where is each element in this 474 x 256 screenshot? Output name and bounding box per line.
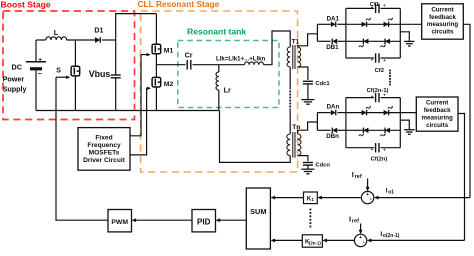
wire Tn secondary bottom to Cdcn — [298, 156, 308, 162]
svg-text:circuits: circuits — [426, 122, 449, 129]
capacitor Cdc1 — [303, 80, 313, 82]
svg-text:DB1: DB1 — [326, 44, 339, 51]
wire Io1 into summing 1 — [378, 197, 471, 199]
svg-text:I: I — [349, 214, 351, 223]
node split vertical for DAn/DBn — [316, 113, 318, 131]
wire feedback 1 down to Io1 summing — [463, 24, 470, 197]
wire K1 to SUM — [274, 197, 304, 199]
wire M2 source to bottom rail — [155, 87, 157, 111]
dots between gain blocks — [310, 209, 312, 211]
capacitor Cdcn — [303, 162, 313, 164]
svg-text:Llk=Llk1+...+Llkn: Llk=Llk1+...+Llkn — [216, 55, 266, 62]
svg-text:-: - — [370, 197, 372, 203]
svg-text:Cdc1: Cdc1 — [315, 81, 330, 87]
svg-text:ref: ref — [355, 174, 362, 180]
wire midpoint tap to tank — [156, 64, 185, 66]
svg-text:M2: M2 — [164, 81, 174, 88]
wire Tn secondary top to rectifier node — [298, 122, 318, 134]
wire to Tn primary — [289, 109, 291, 135]
wire PID to PWM — [135, 219, 192, 221]
wire T1 primary series link — [289, 67, 291, 90]
wire top boost rail — [36, 39, 46, 41]
svg-text:Power: Power — [3, 74, 25, 83]
wire T1 secondary top to rectifier node — [298, 34, 318, 47]
svg-text:+: + — [383, 92, 386, 97]
svg-text:+: + — [383, 58, 386, 63]
svg-text:I: I — [352, 170, 354, 179]
svg-text:CLL Resonant Stage: CLL Resonant Stage — [138, 0, 220, 9]
svg-text:1: 1 — [311, 197, 314, 202]
gate wire of M2 to driver — [146, 87, 149, 89]
ground — [400, 32, 409, 42]
inductor Llk — [245, 62, 264, 65]
wire boost output to half-bridge top rail — [116, 14, 157, 40]
inductor Lr — [218, 65, 220, 72]
capacitor Cf(2n) — [375, 143, 377, 152]
wire feedback 2 down to Io(2n-1) summing — [458, 114, 465, 241]
switch S (boost MOSFET) — [74, 40, 76, 66]
svg-text:+: + — [366, 192, 369, 198]
transistor M1 — [152, 44, 161, 54]
wire PWM to boost switch gate — [56, 77, 108, 220]
svg-text:Supply: Supply — [3, 84, 27, 93]
summing junction 2 — [354, 234, 366, 246]
svg-text:+: + — [359, 235, 362, 241]
summing junction 1 — [361, 191, 373, 203]
arrow Iref into summing 1 — [367, 179, 369, 189]
svg-text:measuring: measuring — [427, 21, 459, 28]
svg-text:Resonant tank: Resonant tank — [187, 27, 246, 37]
ground below Cdcn — [307, 165, 309, 169]
arrow Iref into summing 2 — [360, 224, 362, 231]
block PWM — [108, 210, 132, 232]
svg-text:o1: o1 — [388, 190, 394, 196]
wire summing 2 to K(2n-1) — [326, 239, 355, 241]
ground — [400, 120, 409, 130]
svg-text:Current: Current — [431, 6, 453, 13]
capacitor Cr — [186, 60, 188, 70]
wire boost bottom rail — [36, 110, 220, 112]
svg-text:-: - — [363, 240, 365, 246]
Resonant tank dashed boundary box — [178, 41, 279, 108]
capacitor Cf2 — [375, 53, 377, 62]
svg-text:L: L — [54, 28, 59, 37]
svg-text:+: + — [38, 57, 42, 64]
series dots between transformers — [289, 91, 291, 93]
svg-text:Cf(2n): Cf(2n) — [371, 156, 388, 162]
diode DB1 — [317, 40, 330, 42]
svg-text:circuits: circuits — [431, 29, 454, 36]
svg-text:Cr: Cr — [185, 51, 193, 60]
wire multiplier 1 output to current feedback box 1 — [400, 23, 421, 25]
capacitor Vbus bus cap — [115, 40, 117, 75]
svg-text:Cdcn: Cdcn — [315, 162, 330, 168]
svg-text:feedback: feedback — [424, 107, 451, 114]
svg-text:Current: Current — [426, 100, 448, 107]
DC power supply battery V1 — [35, 40, 37, 62]
svg-text:Driver Circuit: Driver Circuit — [83, 157, 126, 164]
lower chain wire with diodes — [346, 129, 400, 131]
block SUM — [246, 188, 270, 249]
diode DA1 — [317, 23, 330, 25]
svg-text:SUM: SUM — [250, 207, 266, 216]
CLL Resonant Stage dashed boundary box — [141, 11, 298, 172]
box current feedback measuring circuits 2 — [416, 97, 458, 131]
transistor M2 — [152, 77, 161, 87]
diode D1 — [95, 37, 100, 43]
wire primary return path — [220, 111, 291, 163]
svg-text:Frequency: Frequency — [87, 142, 121, 149]
svg-text:DC: DC — [12, 62, 22, 71]
svg-text:−: − — [38, 71, 42, 78]
svg-text:DA1: DA1 — [327, 15, 340, 22]
svg-text:Lr: Lr — [224, 86, 231, 95]
svg-text:T1: T1 — [292, 38, 300, 45]
gain block K(2n-1) — [302, 235, 322, 247]
repetition dots between multiplier units — [389, 70, 391, 72]
wire K(2n-1) to SUM — [274, 239, 302, 241]
svg-text:Cf2: Cf2 — [375, 68, 384, 74]
svg-text:ref: ref — [352, 218, 359, 224]
lower chain wire with diodes — [346, 40, 400, 42]
multiplier ladder box — [346, 7, 374, 9]
gate wire of M1 to driver — [141, 54, 147, 56]
inductor L — [46, 37, 67, 40]
gain block K1 — [304, 192, 318, 204]
ground below Cdc1 — [307, 84, 309, 100]
svg-text:M1: M1 — [164, 48, 174, 55]
gate wire of S with arrow — [56, 76, 67, 78]
svg-text:(2n-1): (2n-1) — [309, 240, 321, 245]
svg-text:PWM: PWM — [111, 219, 128, 226]
svg-text:+: + — [383, 3, 386, 8]
svg-text:+: + — [383, 148, 386, 153]
wire SUM to PID — [219, 219, 246, 221]
svg-text:Boost Stage: Boost Stage — [1, 0, 51, 10]
svg-text:feedback: feedback — [429, 14, 456, 21]
capacitor Cf1 — [375, 4, 377, 13]
wire Cr to Llk — [193, 64, 245, 66]
svg-text:Vbus: Vbus — [89, 69, 111, 79]
wire T1 secondary bottom to Cdc1 — [298, 67, 308, 80]
block PID — [192, 210, 216, 232]
upper chain wire with diodes — [346, 23, 400, 25]
diode DAn — [317, 112, 330, 114]
svg-text:DBn: DBn — [326, 133, 339, 140]
svg-text:PID: PID — [197, 218, 211, 227]
Boost Stage dashed boundary box — [3, 11, 135, 120]
svg-text:S: S — [56, 67, 61, 74]
svg-text:D1: D1 — [94, 28, 103, 35]
svg-text:o(2n-1): o(2n-1) — [383, 233, 400, 239]
svg-text:Fixed: Fixed — [95, 135, 112, 142]
wire M1 drain from top rail — [155, 14, 157, 45]
wire half-bridge midpoint — [155, 54, 157, 78]
diode DBn — [317, 129, 330, 131]
wire summing 1 to K1 — [321, 197, 362, 199]
svg-text:DAn: DAn — [327, 104, 340, 111]
wire Io(2n-1) into summing 2 — [371, 239, 465, 241]
capacitor Cf(2n-1) — [375, 93, 377, 102]
multiplier ladder box — [346, 97, 374, 99]
svg-text:measuring: measuring — [422, 114, 454, 121]
upper chain wire with diodes — [346, 112, 400, 114]
wire multiplier 2 output to current feedback box 2 — [400, 112, 416, 114]
box Fixed Frequency MOSFETs Driver Circuit — [78, 128, 130, 171]
wire Llk to transformer T1 primary — [264, 31, 291, 65]
node split vertical for DA1/DB1 — [316, 24, 318, 41]
svg-text:MOSFETs: MOSFETs — [89, 149, 120, 156]
box current feedback measuring circuits 1 — [422, 4, 464, 39]
